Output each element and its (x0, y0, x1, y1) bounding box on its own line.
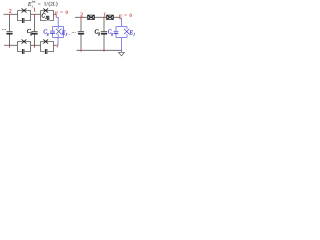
josephson cross E_J (blue qubit, right) (124, 29, 129, 34)
node 2 marker tick (right section) (80, 17, 82, 20)
wire: blue right branch (63, 27, 65, 38)
wire: ground-cap drop at node 1 (lower) (34, 34, 36, 45)
wire: ground-cap drop right node 1 (upper) (103, 20, 105, 31)
wire: right-section node 2 to node 1 (95, 16, 107, 18)
josephson cross E_J (blue qubit, left) (56, 29, 62, 34)
capacitor plates (node 2 ground cap) (6, 32, 12, 34)
svg-text:g: g (47, 32, 49, 36)
bottom-row node tick (left) (9, 44, 11, 47)
wire: bottom-row lead-in (4, 44, 18, 46)
wire: blue qubit bottom bus (right section) (116, 37, 127, 39)
wire: blue qubit entry from node n=0 (right section) (120, 18, 121, 26)
JJ1 parallel capacitor plates (22, 18, 24, 23)
ground-bus junction tick (right node 1) (103, 49, 105, 52)
wire: blue junction branch lower stub (right section) (126, 34, 128, 37)
wire: blue junction upper stub (57, 27, 59, 29)
svg-text:2: 2 (80, 13, 83, 19)
svg-text:=: = (38, 2, 41, 8)
capacitor C_g plates (right node 1 ground cap) (101, 32, 107, 34)
wire: top-row node 2 to node 1 (31, 13, 41, 15)
svg-text:J: J (45, 16, 47, 20)
wire: blue junction branch upper stub (right section) (126, 27, 128, 29)
ground bus (right section) (77, 49, 122, 51)
capacitor C_g plates (blue qubit, right) (114, 31, 119, 33)
svg-text:2: 2 (9, 9, 12, 15)
formula label E_J^tot = 1/(2L) (27, 0, 58, 8)
wire: blue qubit exit to ground bus (right section) (121, 38, 123, 51)
node n=0 marker tick (right section) (119, 17, 121, 19)
ground symbol triangle (119, 52, 125, 56)
svg-text:g: g (98, 32, 100, 36)
wire: blue junction lower stub (57, 34, 59, 37)
wire: blue qubit top bus (53, 26, 64, 28)
wire: blue qubit entry from node n=0 (56, 17, 58, 26)
node 2 marker tick (9, 14, 11, 17)
svg-text:1: 1 (33, 7, 36, 13)
JJ2 parallel capacitor plates (47, 16, 49, 21)
JJ2 josephson cross (43, 8, 48, 12)
wire: right-section top row lead-in (75, 16, 88, 18)
node 1 marker tick (right section) (103, 17, 105, 20)
blue continuation dots (68, 33, 72, 36)
junction loop JJ4 outline (array junction, bottom row) (41, 42, 54, 52)
wire: blue cap branch lower stub (right section) (115, 33, 117, 37)
compact array junction symbol B (JJ with parallel cap) (107, 15, 114, 19)
svg-text:): ) (56, 1, 58, 8)
node 1 marker tick (34, 14, 36, 18)
svg-text:g: g (30, 32, 32, 36)
wire: blue cap branch upper stub (right section) (115, 27, 117, 32)
ground symbol stub (121, 50, 123, 52)
wire: ground-cap drop at node 1 (upper) (34, 18, 36, 31)
capacitor C_g plates (node 1 ground cap) (31, 32, 37, 34)
ground-bus junction tick (right node 2) (80, 49, 82, 52)
svg-text:J: J (65, 33, 67, 37)
junction loop JJ1 outline (array junction, top row) (18, 11, 31, 21)
wire: right-section to node n=0 (114, 16, 121, 18)
svg-text:1: 1 (103, 12, 106, 18)
wire: top-row stub to node n=0 (54, 13, 57, 15)
bottom-row node tick (middle) (34, 44, 36, 47)
wire: bottom-row between loops (31, 44, 41, 46)
bottom-row node tick (right, blue junction connection) (56, 44, 58, 47)
wire: ground-cap drop at node 2 (lower) (9, 34, 11, 45)
JJ1 josephson cross (22, 8, 27, 12)
wire: bottom-row stub to blue junction node (54, 44, 57, 46)
junction loop JJ3 outline (array junction, bottom row) (18, 42, 31, 52)
junction loop JJ2 outline (array junction, top row) (41, 11, 54, 21)
svg-text:tot: tot (32, 0, 36, 4)
wire: blue qubit bottom bus (53, 37, 64, 39)
svg-text:n = 0: n = 0 (55, 11, 68, 16)
continuation dots (array continues left) (2, 28, 6, 31)
JJ3 parallel capacitor plates (22, 49, 24, 54)
JJ4 josephson cross (43, 39, 48, 43)
wire: ground-cap drop right node 2 (lower) (80, 34, 82, 48)
black continuation dots between sections (72, 31, 76, 34)
wire: blue cap branch upper stub (52, 27, 54, 32)
wire: top-row lead-in to node 2 (4, 13, 18, 15)
node n=0 marker tick (55, 14, 57, 17)
compact array junction symbol A (JJ with parallel cap) (88, 15, 95, 19)
wire: ground-cap drop right node 2 (upper) (80, 20, 82, 31)
wire: blue qubit top bus (right section) (116, 26, 127, 28)
svg-text:g: g (111, 32, 113, 36)
wire: ground-cap drop right node 1 (lower) (103, 34, 105, 48)
wire: blue qubit exit to bottom row (57, 38, 59, 46)
capacitor C_g plates (blue qubit, left) (50, 31, 55, 33)
svg-text:J: J (133, 33, 135, 37)
JJ3 josephson cross (22, 39, 27, 43)
wire: blue cap branch lower stub (52, 33, 54, 38)
capacitor plates (right node 2 ground cap) (78, 32, 84, 34)
wire: ground-cap drop at node 2 (upper) (9, 17, 11, 31)
JJ4 parallel capacitor plates (45, 49, 47, 54)
